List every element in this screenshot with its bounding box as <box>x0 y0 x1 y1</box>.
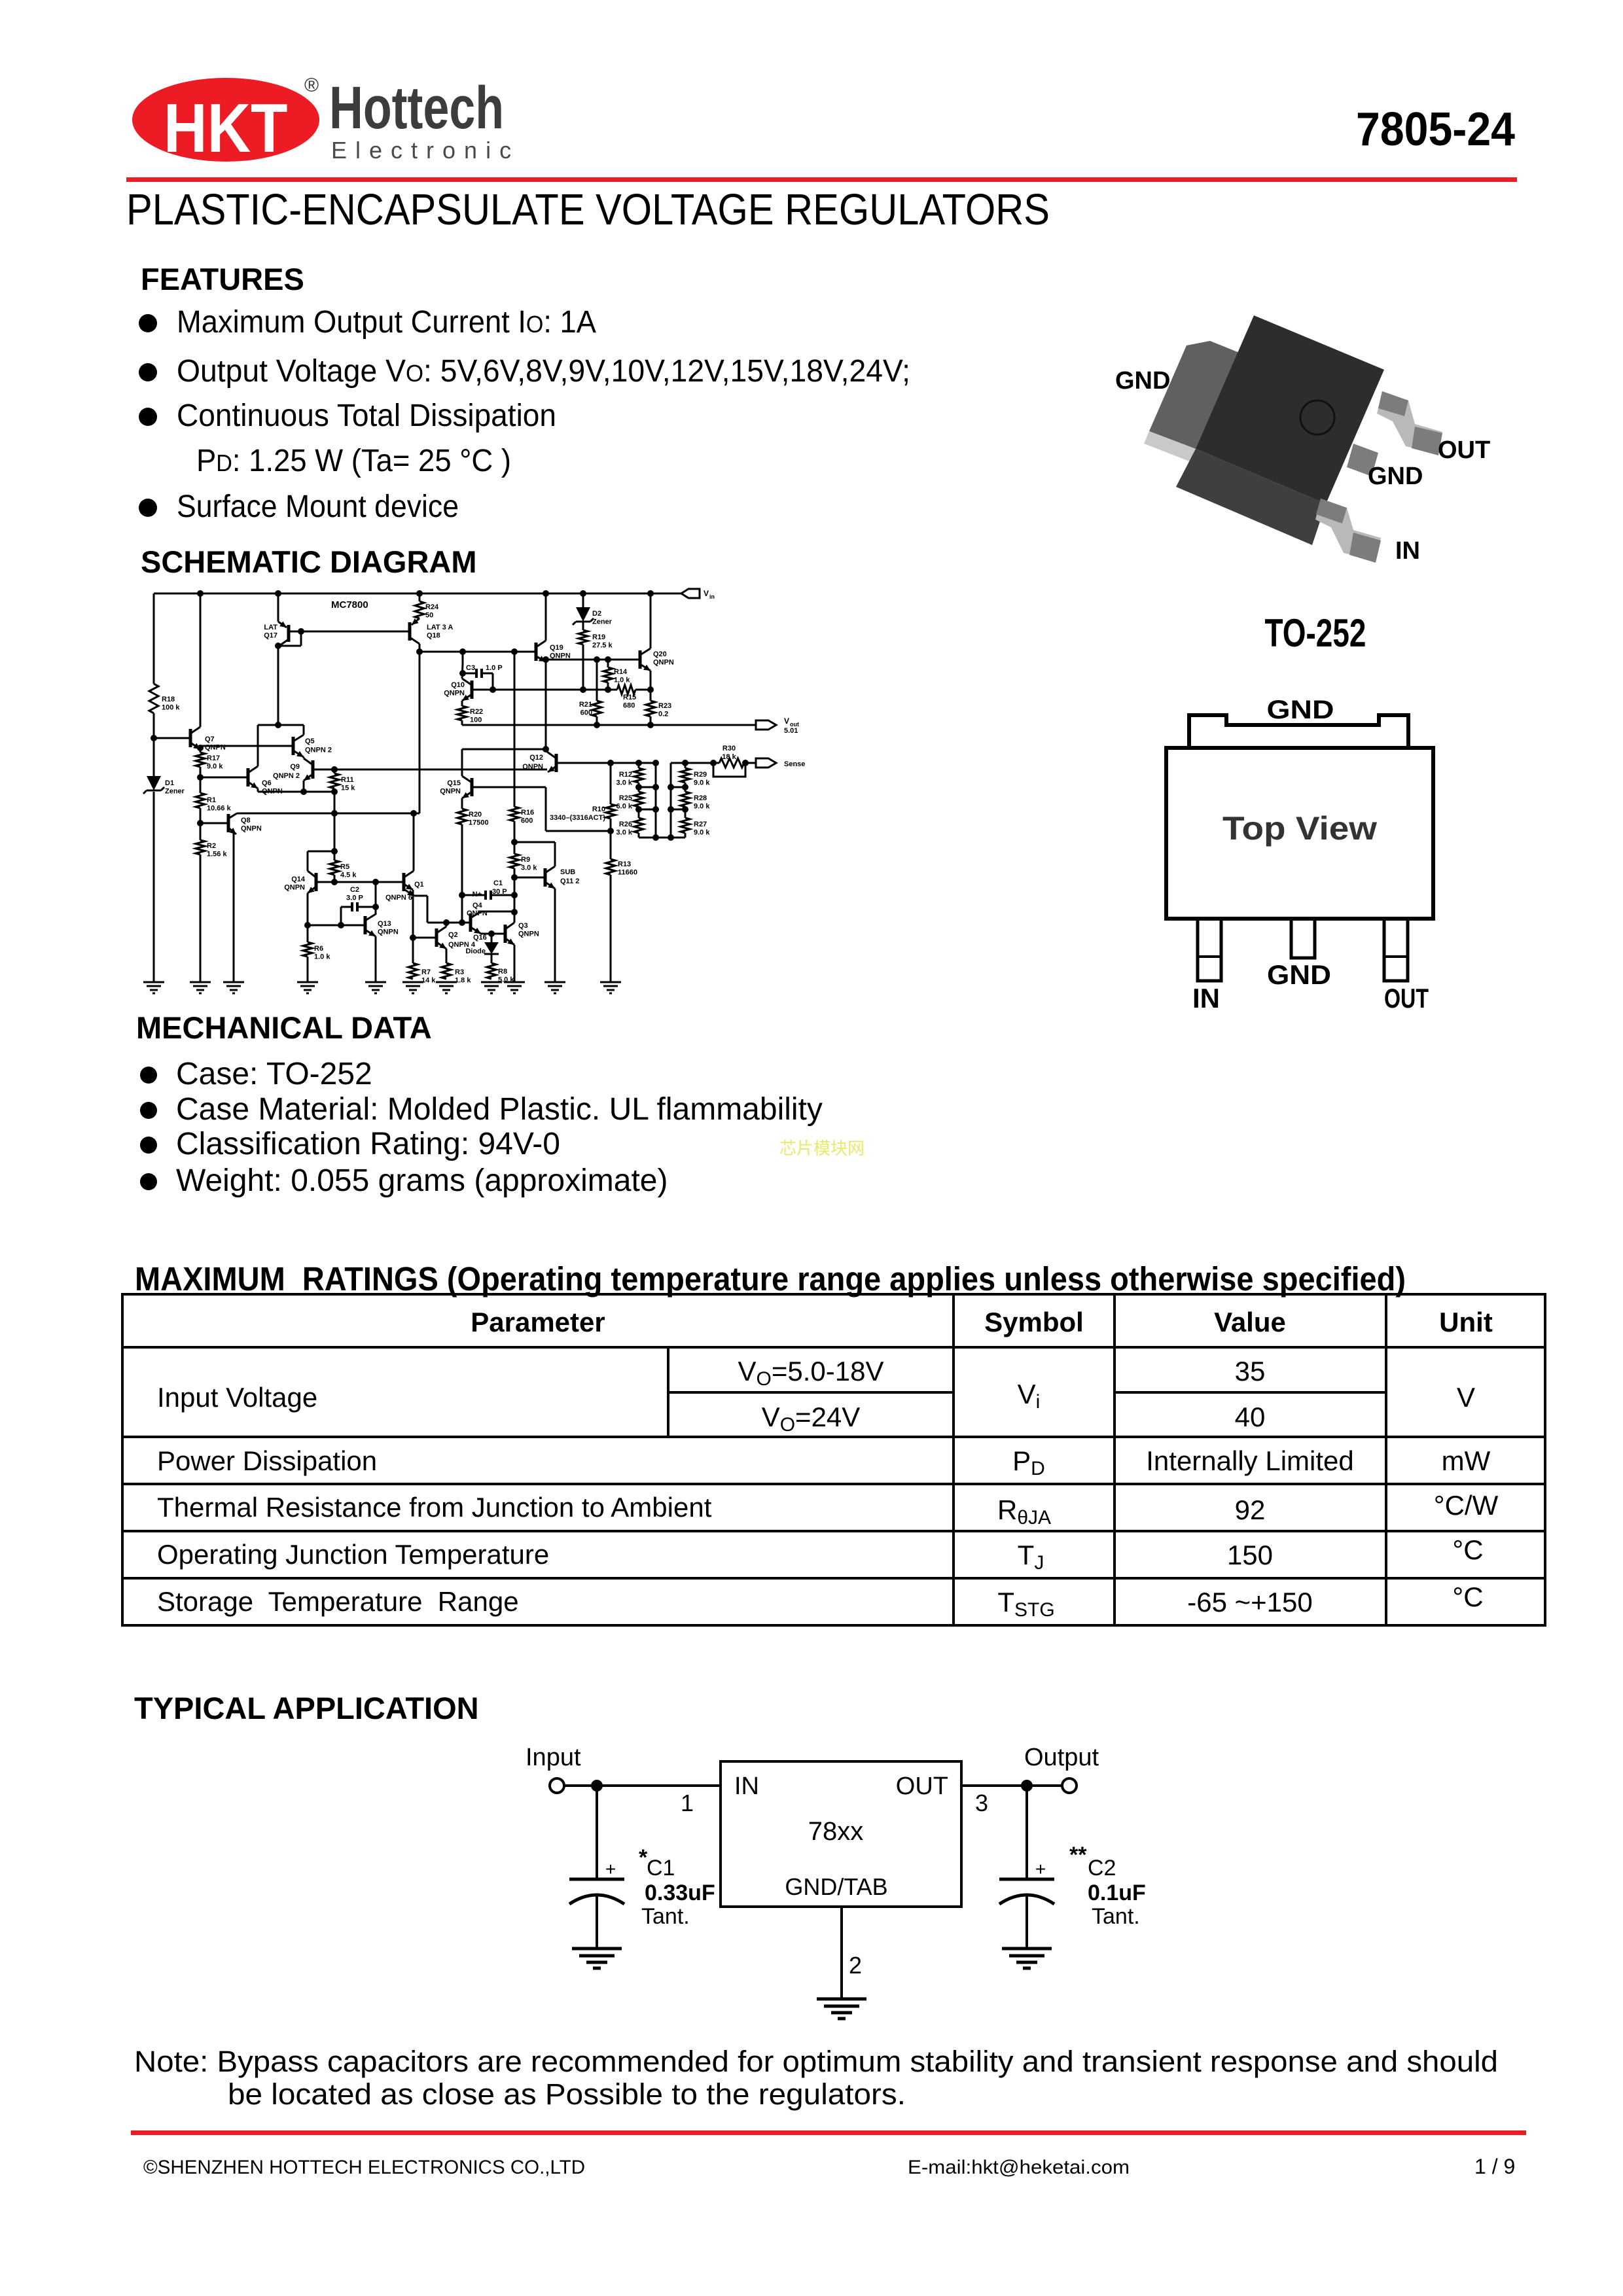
svg-text:Q11 2: Q11 2 <box>560 877 579 885</box>
svg-text:®: ® <box>304 75 319 96</box>
wire input to IN pin <box>564 1784 721 1787</box>
node Q6 base junction <box>197 774 204 781</box>
resistor R20 <box>457 809 467 824</box>
wire Q11 emitter to ground <box>554 889 556 982</box>
svg-text:Q3: Q3 <box>518 922 528 930</box>
svg-text:1 / 9: 1 / 9 <box>1474 2155 1515 2178</box>
node base bus left <box>331 879 338 885</box>
svg-text:Operating Junction Temperature: Operating Junction Temperature <box>157 1539 549 1570</box>
wire Q3 emitter to ground <box>514 945 516 982</box>
transistor Q12 <box>555 754 558 772</box>
node Q7 emitter <box>197 745 204 751</box>
resistor R17 <box>196 752 205 767</box>
logo HKT letters <box>164 90 287 167</box>
svg-text:Sense: Sense <box>784 760 805 768</box>
resistor R7 <box>412 938 414 963</box>
ground Q11 <box>544 981 565 983</box>
top view lead GND <box>1291 919 1315 958</box>
svg-text:3.0 P: 3.0 P <box>346 894 363 902</box>
wire Q19 emitter to Q20 base y=1008 <box>546 659 640 661</box>
svg-text:Q15: Q15 <box>447 779 461 787</box>
footer red rule <box>131 2130 1526 2135</box>
svg-text:3: 3 <box>975 1790 988 1816</box>
svg-text:LAT: LAT <box>264 624 277 631</box>
svg-text:R6: R6 <box>314 945 323 953</box>
svg-text:Q17: Q17 <box>264 632 277 640</box>
feature bullet 3 <box>139 408 157 426</box>
wire left column x=235 <box>153 593 155 684</box>
svg-text:R16: R16 <box>521 809 534 817</box>
svg-text:SCHEMATIC DIAGRAM: SCHEMATIC DIAGRAM <box>141 544 477 579</box>
feature bullet 4 <box>139 499 157 517</box>
svg-text:R19: R19 <box>592 633 605 641</box>
wire Q14 emitter column <box>307 893 309 942</box>
node input junction <box>591 1780 603 1792</box>
svg-text:6.0 k: 6.0 k <box>616 803 633 811</box>
svg-text:Output Voltage VO: 5V,6V,8V,9V: Output Voltage VO: 5V,6V,8V,9V,10V,12V,1… <box>177 354 910 389</box>
svg-text:0.33uF: 0.33uF <box>645 1881 715 1905</box>
svg-text:©SHENZHEN HOTTECH ELECTRONICS: ©SHENZHEN HOTTECH ELECTRONICS CO.,LTD <box>143 2157 585 2178</box>
svg-text:D2: D2 <box>592 610 601 618</box>
resistor R19 <box>579 630 588 645</box>
node output junction <box>1021 1780 1033 1792</box>
resistor R2 <box>196 840 205 855</box>
ground pin 2 <box>817 1998 866 2001</box>
svg-text:Q10: Q10 <box>451 681 465 689</box>
svg-text:Diode: Diode <box>465 947 486 955</box>
wire sense rail left segment <box>611 762 656 764</box>
svg-text:TJ: TJ <box>1018 1540 1044 1574</box>
svg-text:1.0 k: 1.0 k <box>314 953 330 961</box>
transistor Q13 <box>364 916 367 934</box>
ground R6 <box>297 981 318 983</box>
svg-text:R9: R9 <box>521 856 530 864</box>
svg-text:Surface Mount device: Surface Mount device <box>177 489 459 524</box>
svg-text:14 k: 14 k <box>421 977 436 985</box>
svg-text:R28: R28 <box>694 794 707 802</box>
svg-text:°C/W: °C/W <box>1434 1490 1499 1521</box>
svg-text:GND/TAB: GND/TAB <box>785 1873 887 1900</box>
node Q18 emitter junction <box>416 648 423 655</box>
svg-text:GND: GND <box>1115 367 1170 395</box>
svg-text:R10: R10 <box>592 805 605 813</box>
svg-text:°C: °C <box>1452 1581 1483 1612</box>
transistor Q4 <box>469 913 473 932</box>
ground R3 <box>436 981 457 983</box>
transistor Q7 <box>154 737 190 739</box>
svg-text:R3: R3 <box>455 968 464 976</box>
capacitor C3 <box>462 652 464 664</box>
node R11 bottom on Q8 rail <box>331 810 338 817</box>
svg-text:Continuous Total Dissipation: Continuous Total Dissipation <box>177 398 556 433</box>
transistor Q3 <box>504 925 507 943</box>
node R16 bottom <box>511 839 518 845</box>
node C1 right <box>511 909 518 915</box>
svg-text:Hottech: Hottech <box>329 74 504 141</box>
svg-text:40: 40 <box>1235 1402 1266 1432</box>
svg-text:30 P: 30 P <box>492 888 507 896</box>
svg-text:Q12: Q12 <box>529 754 543 762</box>
svg-text:be located as close as Possibl: be located as close as Possible to the r… <box>228 2077 906 2111</box>
svg-text:9.0 k: 9.0 k <box>694 829 710 837</box>
svg-text:C1: C1 <box>647 1856 675 1881</box>
transistor Q1 <box>402 873 406 891</box>
svg-text:R17: R17 <box>207 754 220 762</box>
node Q7 base junction <box>151 735 157 741</box>
svg-text:R13: R13 <box>618 860 631 868</box>
wire R10 column <box>610 763 612 804</box>
ground C2 <box>1002 1947 1052 1951</box>
node Q1 collector on Q8 rail <box>410 810 417 817</box>
svg-text:R14: R14 <box>614 668 628 676</box>
svg-text:Top View: Top View <box>1222 810 1377 847</box>
mech bullet 2 <box>140 1102 157 1119</box>
regulator box 78xx <box>721 1761 961 1907</box>
transistor Q10 <box>471 680 474 699</box>
svg-text:7805-24: 7805-24 <box>1356 103 1515 156</box>
svg-text:Q1: Q1 <box>414 881 424 889</box>
svg-text:V: V <box>1457 1382 1475 1413</box>
svg-text:R25: R25 <box>619 794 632 802</box>
wire C2 right to Q13 collector <box>375 882 377 915</box>
wire Q6 emitter rail y=1210 <box>257 788 259 792</box>
ground R8 <box>481 981 502 983</box>
diode D2 zener <box>582 593 584 607</box>
node R5 top junction <box>331 848 338 855</box>
terminal Output <box>1062 1778 1077 1793</box>
ground left column <box>143 981 164 983</box>
svg-text:35: 35 <box>1235 1356 1266 1386</box>
svg-text:QNPN: QNPN <box>467 910 488 917</box>
resistor R1 <box>196 793 205 808</box>
resistor R18 <box>149 684 158 713</box>
ground R2 column <box>190 981 211 983</box>
svg-text:IN: IN <box>1192 983 1220 1014</box>
wire R22 to Vout rail corner <box>461 720 463 725</box>
svg-text:R30: R30 <box>722 745 736 752</box>
svg-text:C2: C2 <box>1088 1856 1116 1881</box>
svg-text:C1: C1 <box>493 879 503 887</box>
transistor Q5 <box>292 737 295 755</box>
wire Vout rail <box>462 724 756 726</box>
svg-text:R23: R23 <box>658 702 671 710</box>
svg-text:Case: TO-252: Case: TO-252 <box>176 1057 372 1091</box>
svg-text:QNPN: QNPN <box>378 928 399 936</box>
svg-text:V: V <box>704 589 709 598</box>
svg-text:FEATURES: FEATURES <box>141 262 304 296</box>
wire Q10 emitter to R22 <box>461 701 463 706</box>
transistor Q9 <box>312 760 315 779</box>
svg-text:9.0 k: 9.0 k <box>207 763 223 771</box>
svg-text:Q13: Q13 <box>378 920 391 928</box>
svg-text:17500: 17500 <box>469 819 489 827</box>
resistor R14 <box>607 660 609 667</box>
ratings table frame <box>122 1294 1545 1625</box>
svg-text:Q16: Q16 <box>473 934 487 942</box>
svg-text:Q9: Q9 <box>290 763 300 771</box>
svg-text:10.66 k: 10.66 k <box>207 805 232 813</box>
resistor R23 <box>646 701 655 716</box>
svg-text:2: 2 <box>849 1952 862 1979</box>
diode under Q16 <box>491 934 493 942</box>
svg-text:3340–(3316ACT): 3340–(3316ACT) <box>550 814 605 822</box>
wire sense rail right segment <box>671 762 719 764</box>
svg-text:MECHANICAL DATA: MECHANICAL DATA <box>136 1010 432 1045</box>
svg-text:LAT 3 A: LAT 3 A <box>427 624 453 631</box>
transistor Q6 <box>200 777 248 779</box>
svg-text:Q7: Q7 <box>205 735 215 743</box>
svg-text:QNPN: QNPN <box>241 825 262 833</box>
wire Q10 base bus y=1054 <box>493 689 617 691</box>
svg-text:QNPN 6: QNPN 6 <box>385 894 412 902</box>
svg-text:Q18: Q18 <box>427 632 440 640</box>
resistor R6 <box>303 942 312 957</box>
package 3D body top face <box>1196 315 1384 504</box>
wire Q15 collector to Q12 collector node <box>462 749 546 751</box>
transistor Q15 <box>471 778 474 796</box>
resistor R22 <box>457 706 467 720</box>
svg-text:Internally Limited: Internally Limited <box>1146 1445 1353 1476</box>
svg-text:3.0 k: 3.0 k <box>616 779 633 787</box>
svg-text:Q20: Q20 <box>653 650 667 658</box>
node Q17 emitter junction <box>275 643 281 649</box>
svg-text:Q4: Q4 <box>473 902 483 910</box>
feature bullet 2 <box>139 363 157 381</box>
package 3D tab GND <box>1149 341 1254 449</box>
wire R19 to base bus <box>582 645 584 690</box>
node R9 bottom / Q11 base <box>511 874 518 881</box>
svg-text:D1: D1 <box>165 779 174 787</box>
svg-text:11660: 11660 <box>618 869 637 877</box>
wire Q13 emitter to ground <box>375 936 377 982</box>
ground C1 <box>572 1947 622 1951</box>
svg-text:QNPN: QNPN <box>518 930 539 938</box>
svg-text:50: 50 <box>425 612 433 620</box>
wire Q4 emitter to Q3 base <box>481 933 505 935</box>
svg-text:Q6: Q6 <box>262 779 272 787</box>
svg-text:Electronic: Electronic <box>331 137 520 164</box>
svg-text:RθJA: RθJA <box>997 1494 1051 1528</box>
svg-text:QNPN: QNPN <box>522 763 543 771</box>
svg-text:0.1uF: 0.1uF <box>1088 1881 1146 1905</box>
wire Q17 base to Q18 base <box>301 631 410 633</box>
wire parallel link left group <box>655 763 657 838</box>
logo HKT red ellipse <box>132 78 319 162</box>
ground R7 <box>402 981 423 983</box>
svg-text:QNPN: QNPN <box>205 744 226 752</box>
svg-text:PD: PD <box>1012 1445 1045 1479</box>
svg-text:R29: R29 <box>694 771 707 779</box>
svg-text:Q5: Q5 <box>305 737 315 745</box>
wire divider bottom bus <box>639 837 685 839</box>
svg-text:15 k: 15 k <box>341 785 355 792</box>
svg-text:N+: N+ <box>473 891 482 898</box>
svg-text:OUT: OUT <box>896 1773 948 1800</box>
svg-text:TSTG: TSTG <box>997 1587 1054 1621</box>
resistor R11 <box>334 769 336 773</box>
transistor Q2 <box>413 937 437 939</box>
svg-text:-65 ~+150: -65 ~+150 <box>1187 1587 1313 1617</box>
resistor R10 <box>606 804 615 819</box>
svg-text:OUT: OUT <box>1384 983 1429 1014</box>
svg-text:芯片模块网: 芯片模块网 <box>779 1139 865 1158</box>
svg-text:V: V <box>784 716 789 726</box>
svg-text:Output: Output <box>1024 1744 1099 1771</box>
svg-text:1: 1 <box>681 1790 694 1816</box>
svg-text:Value: Value <box>1214 1307 1286 1337</box>
svg-text:**: ** <box>1069 1843 1087 1867</box>
transistor Q11 SUB <box>514 877 545 879</box>
svg-text:R21: R21 <box>579 701 592 709</box>
svg-text:R2: R2 <box>207 842 216 850</box>
svg-text:QNPN 2: QNPN 2 <box>305 747 332 754</box>
svg-text:MAXIMUM RATINGS (Operating te: MAXIMUM RATINGS (Operating temperature r… <box>135 1260 1406 1298</box>
node divider tap <box>607 828 614 834</box>
svg-text:SUB: SUB <box>560 868 575 876</box>
wire Q15 emitter to R20 <box>461 798 463 809</box>
svg-text:R26: R26 <box>619 821 632 828</box>
svg-text:4.5 k: 4.5 k <box>340 872 357 879</box>
wire x=834 down to Q12 collector node <box>545 660 547 749</box>
svg-text:Input: Input <box>526 1744 581 1771</box>
terminal Vin <box>681 589 700 598</box>
svg-text:R18: R18 <box>162 696 175 703</box>
wire parallel link right group <box>670 763 672 838</box>
svg-text:R11: R11 <box>341 776 354 784</box>
svg-text:IN: IN <box>1395 537 1420 565</box>
node top-rail junctions <box>197 590 204 597</box>
transistor Q18 LAT 3 A <box>412 618 419 625</box>
svg-text:mW: mW <box>1442 1445 1491 1476</box>
svg-text:TYPICAL APPLICATION: TYPICAL APPLICATION <box>134 1691 479 1725</box>
wire Q9 emitter down <box>303 781 305 792</box>
resistor R15 <box>617 685 635 694</box>
svg-text:GND: GND <box>1267 696 1334 724</box>
wire Q7 emitter column x=306 <box>200 748 202 752</box>
svg-text:Power Dissipation: Power Dissipation <box>157 1445 377 1476</box>
svg-text:Parameter: Parameter <box>471 1307 605 1337</box>
svg-text:PD: 1.25 W (Ta= 25 °C ): PD: 1.25 W (Ta= 25 °C ) <box>196 444 511 478</box>
wire Q15 base to divider tap <box>545 787 547 831</box>
svg-text:Classification Rating: 94V-0: Classification Rating: 94V-0 <box>176 1127 560 1161</box>
resistor R26 <box>634 818 643 833</box>
svg-text:GND: GND <box>1368 463 1423 490</box>
mech bullet 4 <box>140 1173 157 1190</box>
svg-text:+: + <box>1035 1859 1046 1879</box>
wire base bus y=1348 <box>316 881 404 883</box>
capacitor C2 <box>341 906 352 908</box>
top view body outline <box>1166 748 1433 919</box>
wire R16 R9 column x=786 <box>514 652 516 807</box>
svg-text:R15: R15 <box>623 694 636 701</box>
svg-text:R20: R20 <box>469 811 482 819</box>
wire Vin top rail <box>154 593 681 595</box>
resistor R28 <box>681 792 690 807</box>
wire Q5 box top <box>258 724 304 726</box>
svg-text:MC7800: MC7800 <box>331 599 368 610</box>
svg-text:Thermal Resistance from Juncti: Thermal Resistance from Junction to Ambi… <box>157 1492 712 1523</box>
svg-text:Case Material: Molded Plastic.: Case Material: Molded Plastic. UL flamma… <box>176 1092 823 1127</box>
wire GND/TAB pin 2 <box>840 1907 843 1999</box>
node Q8 base junction <box>197 820 204 826</box>
svg-text:R5: R5 <box>340 863 349 871</box>
wire y=996 bias rail <box>419 651 536 653</box>
wire Q8 emitter to ground <box>233 833 235 982</box>
svg-text:R1: R1 <box>207 796 216 804</box>
wire Q8 collector rail y=1243 <box>237 813 419 815</box>
resistor R25 <box>634 792 643 807</box>
svg-text:100 k: 100 k <box>162 704 180 712</box>
resistor R27 <box>681 818 690 833</box>
svg-text:Q19: Q19 <box>550 644 563 652</box>
svg-text:R8: R8 <box>498 968 507 976</box>
svg-text:Q8: Q8 <box>241 817 251 824</box>
svg-text:9.0 k: 9.0 k <box>694 803 710 811</box>
svg-text:IN: IN <box>734 1773 759 1800</box>
svg-text:Q14: Q14 <box>291 875 306 883</box>
node R29 bottom <box>682 784 688 790</box>
feature bullet 1 <box>139 314 157 332</box>
package 3D lead IN <box>1315 499 1381 561</box>
svg-text:VO=24V: VO=24V <box>762 1402 861 1436</box>
svg-text:in: in <box>709 593 715 600</box>
header red rule <box>126 177 1517 182</box>
svg-text:E-mail:hkt@heketai.com: E-mail:hkt@heketai.com <box>908 2157 1130 2178</box>
svg-text:°C: °C <box>1452 1534 1483 1565</box>
svg-text:Tant.: Tant. <box>641 1904 690 1929</box>
svg-text:9.0 k: 9.0 k <box>694 779 710 787</box>
svg-text:100: 100 <box>470 716 482 724</box>
svg-text:150: 150 <box>1227 1540 1273 1570</box>
svg-text:Note: Bypass capacitors are re: Note: Bypass capacitors are recommended … <box>134 2045 1498 2078</box>
svg-text:27.5 k: 27.5 k <box>592 642 613 650</box>
ground Q8 emitter <box>223 981 244 983</box>
wire Q1 emitter1 to Q2 base <box>412 890 414 938</box>
svg-text:+: + <box>605 1859 616 1879</box>
svg-text:Zener: Zener <box>165 788 185 796</box>
svg-text:Tant.: Tant. <box>1092 1904 1140 1929</box>
svg-text:Q2: Q2 <box>448 931 458 939</box>
resistor R8 <box>487 963 496 979</box>
wire R30 bypass loop <box>713 763 745 777</box>
terminal Input <box>550 1778 564 1793</box>
ground Q13 <box>365 981 386 983</box>
node R28 bottom <box>682 806 688 813</box>
svg-text:R27: R27 <box>694 821 707 828</box>
terminal Sense <box>756 758 776 768</box>
node R15 right <box>647 686 654 693</box>
package 3D body front face <box>1176 449 1326 545</box>
wire Q17 junction down to Q5 box <box>277 646 279 725</box>
svg-text:QNPN: QNPN <box>653 659 674 667</box>
svg-text:600: 600 <box>521 817 533 825</box>
svg-text:Zener: Zener <box>592 618 613 626</box>
transistor Q17 LAT <box>277 593 279 622</box>
svg-text:QNPN: QNPN <box>284 884 305 892</box>
svg-text:R24: R24 <box>425 603 439 611</box>
top view lead IN <box>1198 919 1221 981</box>
ground Q3 <box>504 981 525 983</box>
resistor R30 <box>719 758 744 768</box>
ground R13 <box>600 981 621 983</box>
resistor R24 <box>419 593 421 601</box>
resistor R12 <box>638 763 640 768</box>
mech bullet 1 <box>140 1067 157 1084</box>
package 3D lead GND <box>1347 444 1378 476</box>
svg-text:680: 680 <box>623 702 635 710</box>
svg-text:78xx: 78xx <box>808 1817 864 1846</box>
svg-text:GND: GND <box>1267 959 1331 990</box>
